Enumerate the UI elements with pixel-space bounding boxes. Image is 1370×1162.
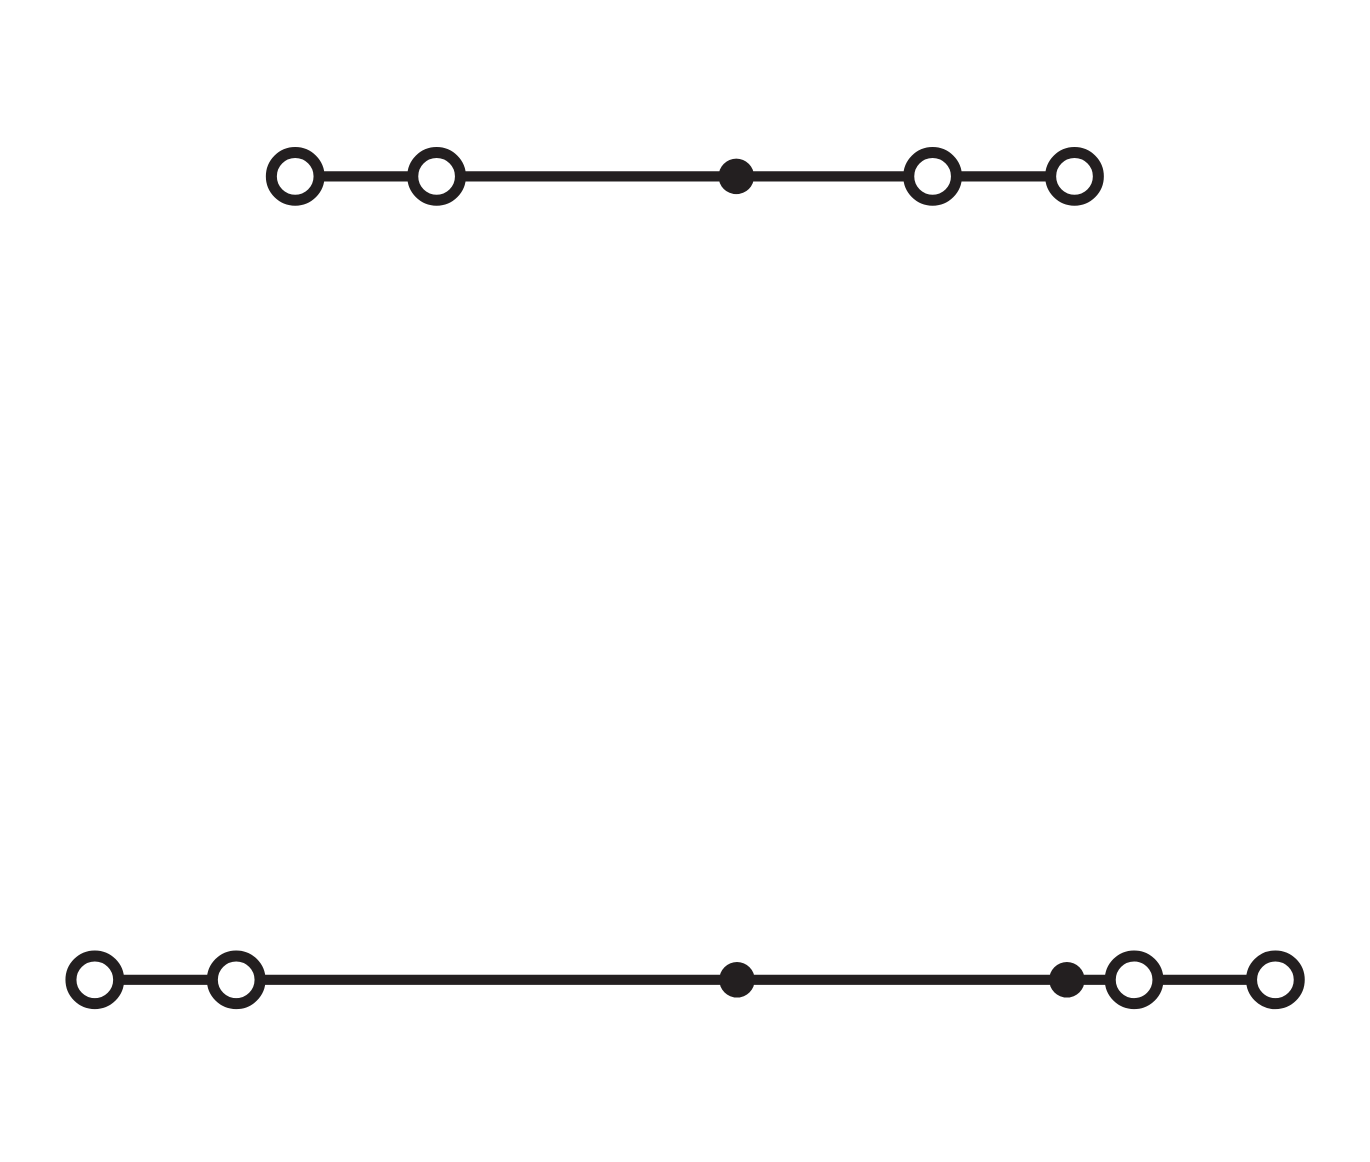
node: top row open circle 1 — [271, 153, 319, 201]
node: bottom row open circle 6 — [1252, 956, 1300, 1004]
node: bottom row open circle 1 — [71, 956, 119, 1004]
node: top row open circle 2 — [413, 153, 461, 201]
node: top row open circle 4 — [909, 153, 957, 201]
node: top row open circle 5 — [1051, 153, 1099, 201]
node: bottom row filled dot 4 — [1049, 962, 1085, 998]
wire: top row baseline connecting all top nodes — [295, 171, 1074, 181]
node: bottom row open circle 5 — [1110, 956, 1158, 1004]
node: bottom row filled dot 3 — [719, 962, 755, 998]
wire: bottom row baseline connecting all bottom nodes — [95, 975, 1276, 985]
node: bottom row open circle 2 — [212, 956, 260, 1004]
node: top row filled dot 3 — [719, 159, 755, 195]
